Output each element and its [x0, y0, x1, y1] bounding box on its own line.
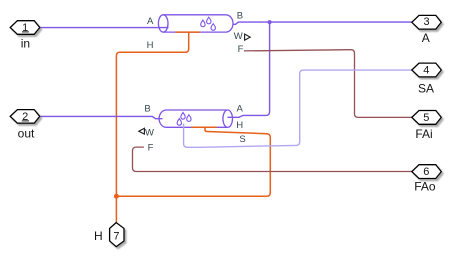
svg-text:A: A	[237, 104, 244, 115]
wire U2 port F to port6 FAo (moist air, brown)	[133, 147, 412, 171]
port 7 hexagon (vertical)	[110, 223, 124, 247]
svg-text:F: F	[238, 44, 244, 55]
svg-text:SA: SA	[418, 82, 434, 96]
svg-text:6: 6	[423, 166, 429, 178]
port 4 hexagon	[412, 63, 442, 77]
junction node purple	[268, 20, 272, 24]
pipe block U2 body	[159, 110, 227, 127]
pipe block U2 droplet icon 3	[177, 119, 181, 126]
svg-text:B: B	[237, 10, 243, 21]
svg-text:out: out	[18, 126, 35, 140]
svg-text:S: S	[239, 134, 245, 145]
wire U1 port H down-left to junction and port7 (thermal, orange)	[116, 32, 188, 222]
pipe block U2 droplet icon 2	[187, 115, 191, 122]
port 3 hexagon	[412, 15, 442, 29]
svg-text:3: 3	[423, 16, 429, 28]
pipe block U2 droplet icon 1	[181, 113, 185, 120]
pipe block U1 droplet icon 3	[211, 24, 215, 31]
port 6 hexagon	[412, 165, 442, 179]
wire U2 port S to port4 SA (physical signal, lavender)	[184, 70, 412, 147]
svg-text:H: H	[236, 120, 243, 131]
svg-text:A: A	[147, 16, 154, 27]
svg-text:7: 7	[113, 230, 119, 242]
wire U1 port F to port5 FAi (moist air, brown)	[244, 50, 412, 118]
svg-text:B: B	[144, 103, 150, 114]
junction node orange	[114, 194, 119, 199]
pipe block U2 right end cap ellipse	[223, 110, 233, 127]
svg-text:F: F	[148, 142, 154, 153]
svg-text:H: H	[147, 40, 154, 51]
wire branch junction to U2 port A (two-phase, purple)	[228, 22, 270, 117]
wire port2 to U2 port B (two-phase, purple)	[40, 116, 163, 118]
svg-text:A: A	[422, 31, 430, 45]
pipe block U1 body	[163, 15, 233, 32]
wire U2 port H to junction (thermal, orange)	[116, 127, 270, 196]
svg-text:W: W	[234, 31, 243, 42]
svg-text:in: in	[21, 37, 30, 51]
pipe block U1 thermal port H edge marker	[175, 31, 200, 33]
svg-text:FAo: FAo	[414, 179, 436, 193]
U1 PS output port W triangle	[245, 34, 251, 40]
pipe block U1 droplet icon 1	[201, 20, 205, 27]
U2 PS input port W triangle	[139, 128, 145, 134]
svg-text:FAi: FAi	[415, 127, 432, 141]
svg-text:H: H	[94, 229, 103, 243]
port 5 hexagon	[412, 111, 442, 125]
pipe block U2 thermal port H edge marker	[191, 126, 216, 128]
wire U1 port B to port3 A (two-phase, purple)	[233, 22, 412, 24]
svg-text:5: 5	[423, 112, 429, 124]
pipe block U1 droplet icon 2	[207, 17, 211, 24]
wire port1 to U1 port A (two-phase, purple)	[40, 27, 169, 29]
svg-text:4: 4	[423, 64, 429, 76]
port 1 hexagon	[10, 21, 40, 35]
port 2 hexagon	[10, 110, 40, 124]
pipe block U1 left end cap ellipse	[158, 15, 168, 32]
svg-text:W: W	[145, 127, 154, 138]
